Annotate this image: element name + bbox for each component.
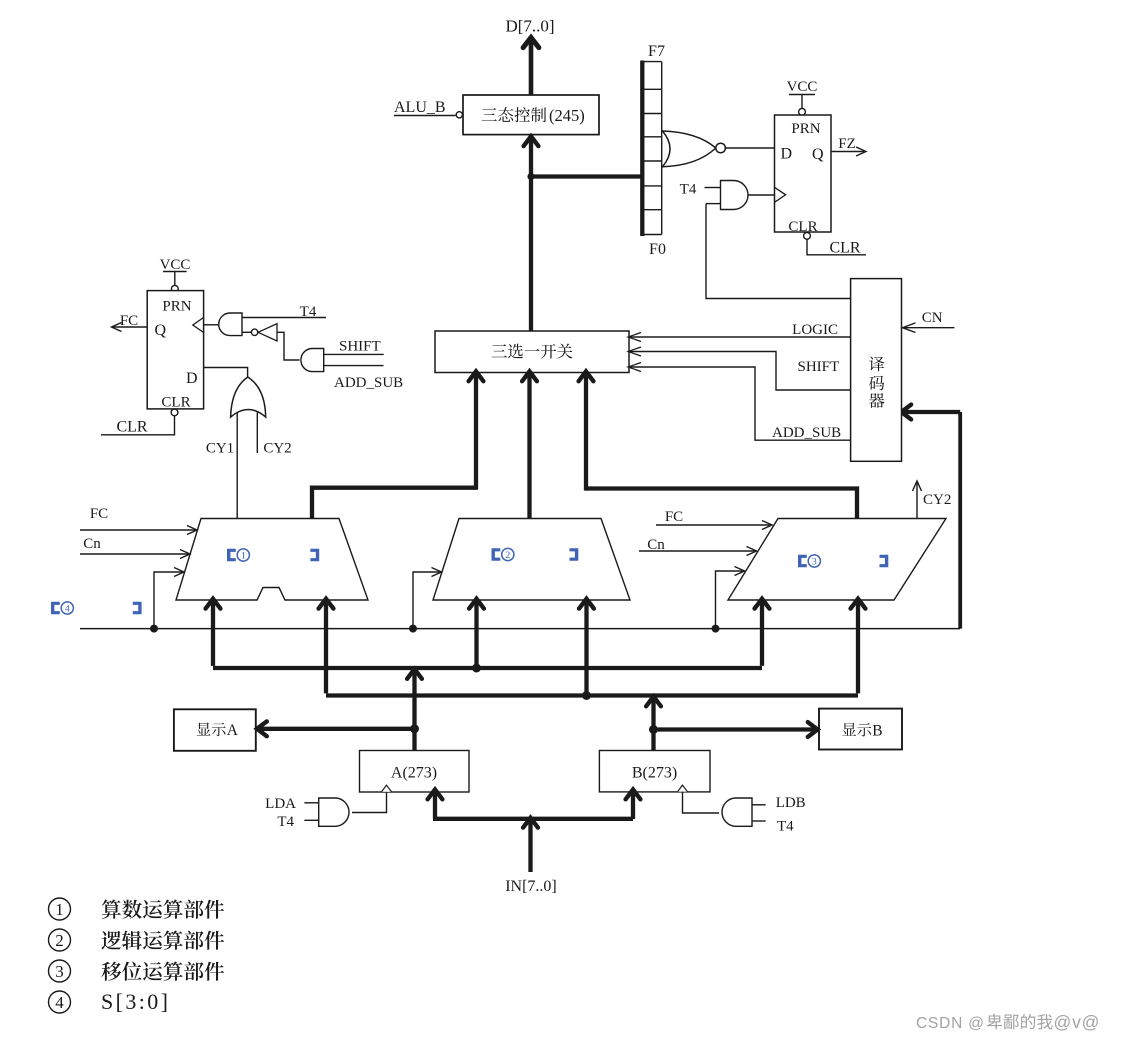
svg-text:Q: Q bbox=[155, 322, 167, 339]
svg-text:IN[7..0]: IN[7..0] bbox=[505, 878, 557, 895]
svg-text:D[7..0]: D[7..0] bbox=[505, 17, 554, 36]
svg-text:T4: T4 bbox=[680, 182, 697, 198]
svg-text:CY1: CY1 bbox=[206, 441, 234, 457]
svg-text:ADD_SUB: ADD_SUB bbox=[334, 375, 403, 391]
svg-text:F7: F7 bbox=[648, 43, 665, 60]
svg-text:D: D bbox=[186, 370, 198, 387]
svg-text:T4: T4 bbox=[300, 304, 317, 320]
svg-text:VCC: VCC bbox=[787, 79, 818, 95]
svg-text:1: 1 bbox=[241, 550, 246, 561]
svg-text:PRN: PRN bbox=[162, 299, 191, 315]
svg-text:A: A bbox=[227, 722, 239, 739]
svg-text:2: 2 bbox=[505, 550, 510, 561]
svg-text:Q: Q bbox=[812, 146, 824, 163]
svg-text:SHIFT: SHIFT bbox=[339, 339, 381, 355]
svg-text:CLR: CLR bbox=[161, 395, 190, 411]
svg-text:SHIFT: SHIFT bbox=[798, 359, 840, 375]
svg-text:CN: CN bbox=[922, 310, 943, 326]
svg-text:S[3:0]: S[3:0] bbox=[101, 989, 170, 1014]
svg-text:CLR: CLR bbox=[116, 419, 147, 436]
svg-text:LOGIC: LOGIC bbox=[792, 322, 838, 338]
svg-text:(245): (245) bbox=[549, 106, 585, 125]
svg-text:A(273): A(273) bbox=[391, 765, 437, 782]
svg-text:CLR: CLR bbox=[829, 240, 860, 257]
svg-text:CLR: CLR bbox=[788, 219, 817, 235]
svg-text:PRN: PRN bbox=[791, 121, 820, 137]
svg-text:Cn: Cn bbox=[647, 537, 665, 553]
svg-text:@v@: @v@ bbox=[1054, 1012, 1101, 1032]
svg-text:ALU_B: ALU_B bbox=[394, 99, 446, 116]
svg-text:4: 4 bbox=[65, 603, 70, 614]
svg-text:ADD_SUB: ADD_SUB bbox=[772, 425, 841, 441]
svg-text:FC: FC bbox=[120, 313, 138, 329]
svg-text:VCC: VCC bbox=[160, 257, 191, 273]
svg-text:1: 1 bbox=[55, 900, 64, 919]
svg-text:2: 2 bbox=[55, 931, 64, 950]
svg-text:T4: T4 bbox=[277, 814, 294, 830]
svg-text:FC: FC bbox=[90, 506, 108, 522]
svg-text:B: B bbox=[872, 722, 882, 739]
svg-text:LDB: LDB bbox=[776, 795, 806, 811]
svg-text:3: 3 bbox=[812, 556, 817, 567]
svg-text:LDA: LDA bbox=[265, 796, 296, 812]
svg-text:D: D bbox=[781, 146, 793, 163]
svg-text:CY2: CY2 bbox=[263, 441, 291, 457]
svg-text:FC: FC bbox=[665, 509, 683, 525]
svg-text:3: 3 bbox=[55, 962, 64, 981]
svg-text:T4: T4 bbox=[777, 819, 794, 835]
svg-text:F0: F0 bbox=[649, 241, 666, 258]
svg-text:CSDN @: CSDN @ bbox=[916, 1015, 985, 1032]
svg-text:4: 4 bbox=[55, 993, 64, 1012]
svg-text:FZ: FZ bbox=[838, 136, 856, 152]
svg-text:B(273): B(273) bbox=[632, 765, 677, 782]
svg-text:CY2: CY2 bbox=[923, 492, 951, 508]
svg-text:Cn: Cn bbox=[83, 536, 101, 552]
